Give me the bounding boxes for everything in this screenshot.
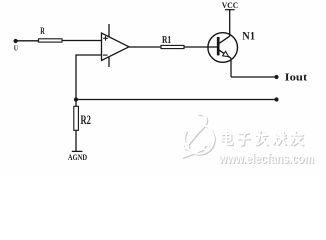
svg-text:Iout: Iout [285,73,308,84]
svg-text:R2: R2 [81,113,91,127]
svg-text:AGND: AGND [68,153,87,162]
svg-text:R: R [40,27,45,37]
svg-text:VCC: VCC [222,0,238,10]
svg-text:U: U [14,46,18,53]
svg-text:N1: N1 [242,30,255,42]
svg-text:R1: R1 [162,34,171,46]
